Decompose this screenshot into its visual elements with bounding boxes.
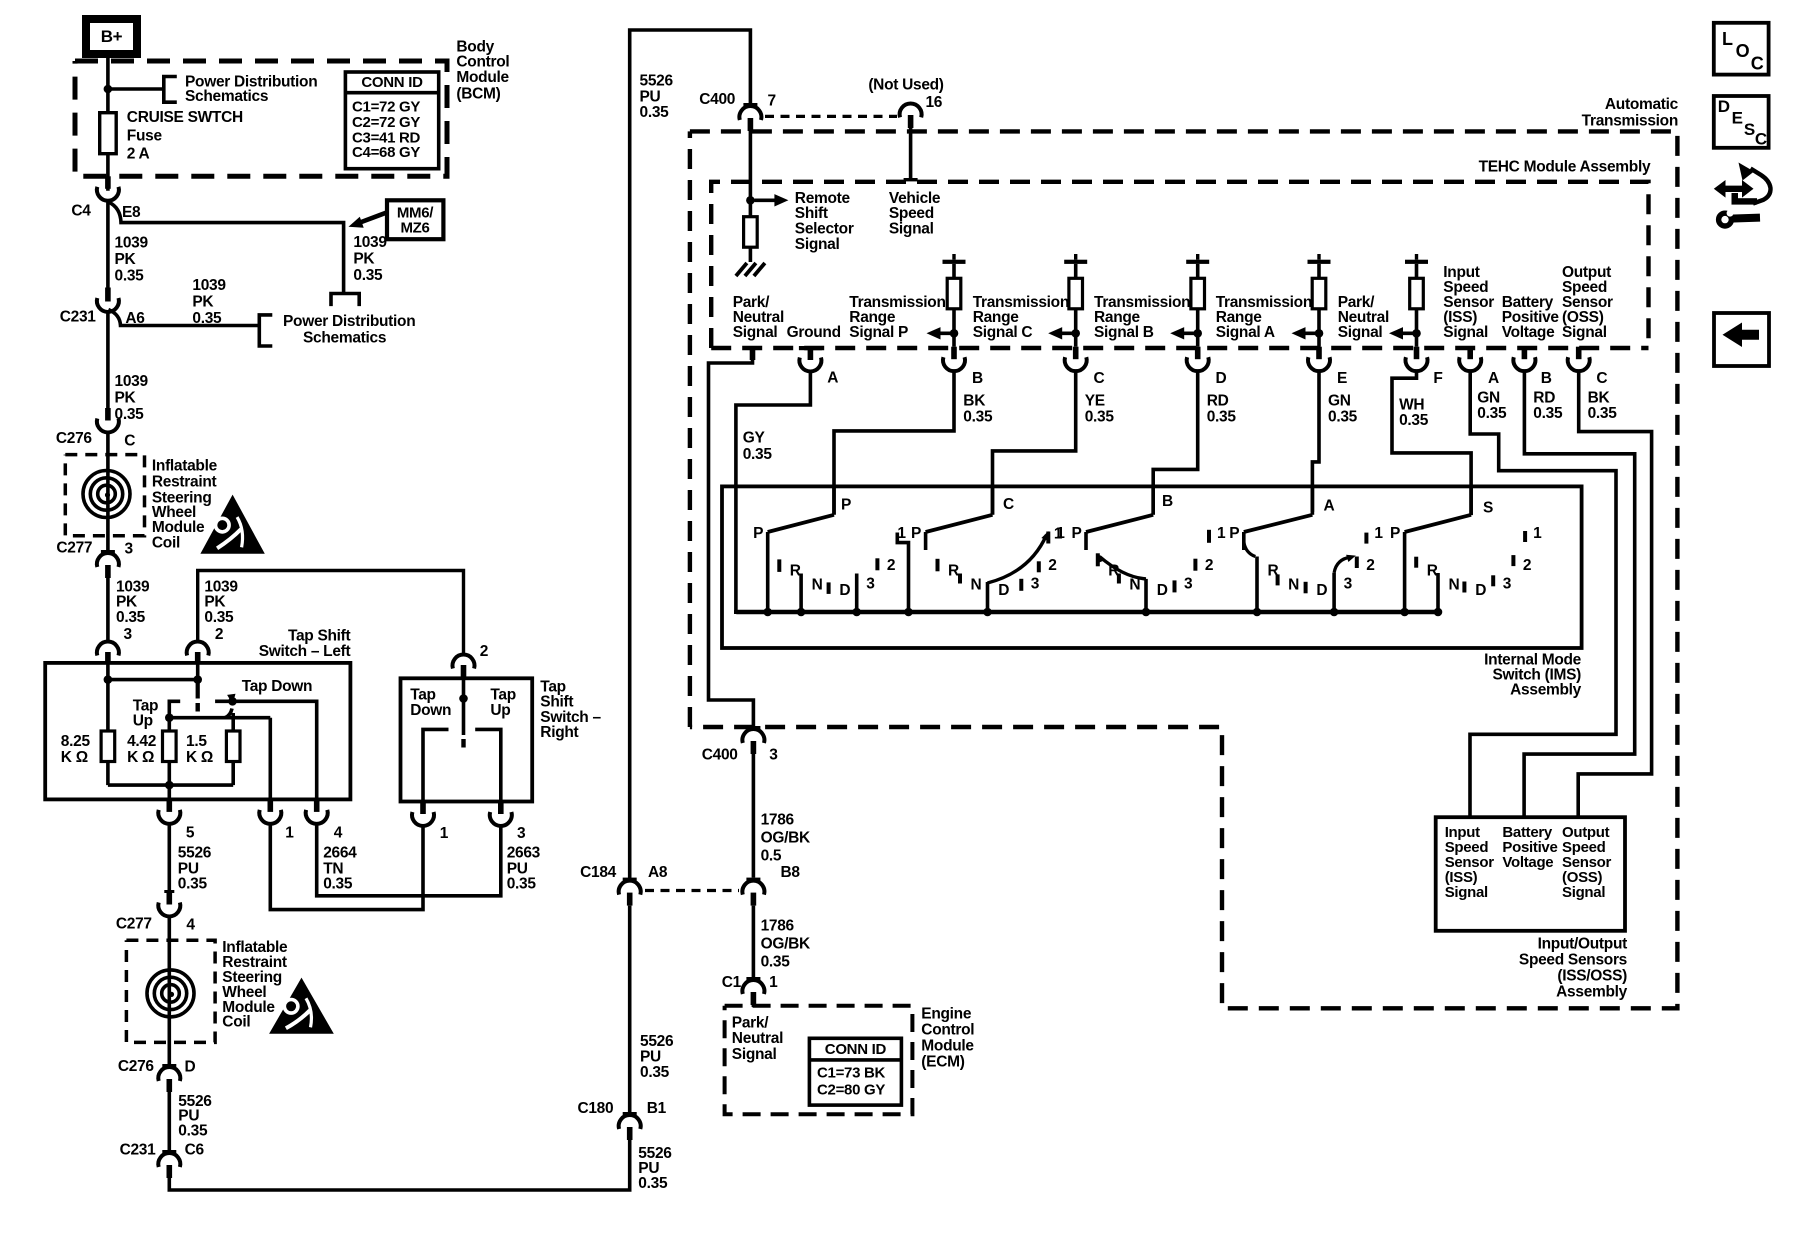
IMS bank A link P to R bbox=[1244, 542, 1256, 557]
svg-text:0.35: 0.35 bbox=[743, 446, 773, 463]
svg-text:C1=73 BK: C1=73 BK bbox=[817, 1065, 886, 1082]
svg-text:1786: 1786 bbox=[761, 812, 795, 829]
svg-text:C1: C1 bbox=[722, 974, 742, 991]
IMS bank C P contact bbox=[924, 532, 928, 550]
connector TEHC pin B at x=1524.4 bbox=[1522, 347, 1528, 360]
IMS bank A contact R bbox=[1255, 557, 1259, 613]
off-page reference Power Distribution Schematics 2 bbox=[259, 315, 272, 346]
svg-text:E: E bbox=[1732, 109, 1743, 128]
IMS bank C contact 1 bbox=[1046, 532, 1050, 544]
svg-text:0.35: 0.35 bbox=[963, 409, 993, 426]
wire pin1-left to pin1-right bbox=[270, 824, 423, 909]
IMS bank P contact 2 bbox=[875, 558, 879, 570]
node jumper right bbox=[193, 675, 202, 684]
connector table CONN ID ECM bbox=[809, 1038, 901, 1105]
connector C231 pin A6 bbox=[105, 288, 111, 302]
dashed box inflatable restraint coil upper bbox=[65, 455, 144, 536]
battery feed B+ terminal bbox=[86, 19, 137, 54]
internal mode switch IMS box bbox=[722, 486, 1582, 648]
wire C277 to switch pin 3 bbox=[106, 578, 110, 643]
svg-text:N: N bbox=[812, 577, 823, 594]
svg-text:1: 1 bbox=[1054, 525, 1063, 542]
wire 5526 riser to C400 pin 7 bbox=[630, 30, 751, 878]
resistor remote shift selector bbox=[744, 217, 758, 248]
wire B8 to C1 bbox=[752, 906, 756, 977]
svg-text:5526: 5526 bbox=[640, 73, 674, 90]
MM6/MZ6 option box bbox=[387, 200, 443, 239]
svg-text:Signal: Signal bbox=[733, 324, 778, 341]
svg-text:Signal: Signal bbox=[1562, 884, 1605, 901]
svg-text:PK: PK bbox=[192, 294, 214, 311]
connector C276 pin D bbox=[162, 1064, 176, 1067]
wire branch E8 to MM6/MZ6 note bbox=[108, 202, 343, 294]
svg-text:RD: RD bbox=[1207, 393, 1229, 410]
svg-text:0.35: 0.35 bbox=[640, 104, 670, 121]
svg-text:Signal P: Signal P bbox=[849, 324, 908, 341]
connector TEHC pin D at x=1197.7 bbox=[1195, 347, 1201, 360]
svg-text:0.35: 0.35 bbox=[640, 1064, 670, 1081]
svg-text:Signal: Signal bbox=[1443, 324, 1488, 341]
svg-text:Signal: Signal bbox=[795, 236, 840, 253]
node resistor bus bbox=[165, 781, 174, 790]
input/output speed sensors box bbox=[1436, 817, 1625, 931]
svg-text:Voltage: Voltage bbox=[1502, 854, 1553, 871]
arrow from MM6 box to wire bbox=[360, 212, 388, 223]
svg-text:D: D bbox=[1157, 582, 1168, 599]
svg-text:D: D bbox=[1475, 582, 1486, 599]
svg-text:Power Distribution: Power Distribution bbox=[283, 313, 415, 330]
wire pin to IMS feed x=1153.2 bbox=[1153, 372, 1198, 515]
connector C277 pin 4 bbox=[164, 890, 174, 893]
bus bottom of resistors bbox=[108, 783, 233, 787]
svg-text:0.35: 0.35 bbox=[178, 876, 208, 893]
svg-text:Input/Output: Input/Output bbox=[1538, 936, 1628, 953]
svg-text:CRUISE SWTCH: CRUISE SWTCH bbox=[127, 109, 243, 126]
svg-text:Schematics: Schematics bbox=[185, 88, 268, 105]
tap shift switch right box bbox=[401, 678, 533, 801]
svg-text:B: B bbox=[972, 370, 983, 387]
svg-text:Voltage: Voltage bbox=[1502, 324, 1555, 341]
wire internal jumper pin3-pin2 bbox=[106, 663, 110, 680]
IMS bank S contact 1 bbox=[1523, 531, 1527, 542]
IMS bank P P contact bbox=[766, 532, 770, 612]
connector TEHC pin A ground bbox=[799, 346, 822, 350]
pull-up column B (Signal P) bbox=[943, 260, 966, 264]
connector switch-right pin 1 bbox=[420, 802, 426, 815]
svg-text:C4=68 GY: C4=68 GY bbox=[352, 144, 420, 161]
connector TEHC pin E at x=1319.0 bbox=[1316, 347, 1322, 360]
wire A6 branch to power distribution bbox=[108, 310, 259, 326]
svg-text:N: N bbox=[971, 577, 982, 594]
svg-text:S: S bbox=[1483, 500, 1493, 517]
svg-text:PK: PK bbox=[115, 390, 137, 407]
wire B+ to fuse bbox=[106, 54, 110, 191]
off-page reference bracket down bbox=[331, 294, 359, 307]
switch blade tap down with arrow bbox=[225, 709, 232, 718]
IMS common bus bbox=[736, 610, 1438, 615]
svg-text:D: D bbox=[185, 1059, 196, 1076]
connector C400 pin 7 bbox=[743, 103, 757, 106]
svg-text:0.35: 0.35 bbox=[1328, 409, 1358, 426]
svg-text:Up: Up bbox=[133, 713, 153, 730]
IMS bank A contact 2 bbox=[1355, 557, 1359, 569]
svg-text:(Not Used): (Not Used) bbox=[868, 77, 943, 94]
svg-text:Restraint: Restraint bbox=[152, 474, 217, 491]
svg-text:5: 5 bbox=[186, 825, 195, 842]
svg-text:A: A bbox=[1488, 370, 1499, 387]
svg-text:2664: 2664 bbox=[323, 844, 357, 861]
svg-text:2663: 2663 bbox=[507, 844, 541, 861]
switch pole right box bbox=[462, 678, 466, 735]
svg-text:1039: 1039 bbox=[115, 373, 149, 390]
svg-text:Transmission: Transmission bbox=[1582, 112, 1678, 129]
svg-text:1: 1 bbox=[1374, 525, 1383, 542]
svg-text:2 A: 2 A bbox=[127, 146, 150, 163]
pin P/N stub (no connector) bbox=[750, 347, 756, 360]
svg-text:0.35: 0.35 bbox=[1085, 409, 1115, 426]
IMS bank S contact 2 bbox=[1511, 555, 1515, 566]
warning triangle SIR lower bbox=[269, 978, 334, 1034]
IMS bank C contact D bbox=[986, 582, 990, 612]
svg-text:1039: 1039 bbox=[192, 277, 226, 294]
IMS bank S contact N bbox=[1436, 573, 1440, 612]
IMS bank B contact N bbox=[1117, 574, 1121, 584]
svg-text:P: P bbox=[1390, 525, 1400, 542]
svg-text:1: 1 bbox=[440, 825, 449, 842]
svg-text:B+: B+ bbox=[101, 27, 123, 46]
arrow remote shift selector signal bbox=[754, 199, 779, 203]
svg-text:1039: 1039 bbox=[115, 235, 149, 252]
wire 8.25K leg bbox=[106, 680, 110, 731]
connector C4 pin E8 bbox=[105, 176, 111, 189]
svg-text:Automatic: Automatic bbox=[1605, 96, 1679, 113]
IMS bank B contact 3 bbox=[1173, 580, 1177, 592]
wire ground GY to IMS bus bbox=[736, 372, 811, 612]
svg-text:PU: PU bbox=[640, 1049, 661, 1066]
svg-text:BK: BK bbox=[963, 393, 986, 410]
svg-text:C276: C276 bbox=[118, 1058, 155, 1075]
wire pin to IMS feed x=992.5 bbox=[993, 372, 1076, 515]
svg-text:PK: PK bbox=[353, 251, 375, 268]
svg-text:0.35: 0.35 bbox=[1533, 405, 1563, 422]
wire pin E to IMS feed A bbox=[1312, 372, 1319, 512]
svg-text:(ECM): (ECM) bbox=[921, 1054, 964, 1071]
svg-text:D: D bbox=[1316, 582, 1327, 599]
connector C231 pin C6 bbox=[162, 1150, 176, 1153]
IMS bank S P contact bbox=[1403, 532, 1407, 612]
wire Park/Neutral signal to C400-3 bbox=[709, 360, 754, 726]
svg-text:CONN ID: CONN ID bbox=[825, 1041, 887, 1058]
svg-text:Signal A: Signal A bbox=[1216, 324, 1275, 341]
switch pole from pin 2 bbox=[196, 680, 200, 699]
svg-text:C184: C184 bbox=[580, 864, 617, 881]
svg-text:16: 16 bbox=[925, 94, 942, 111]
svg-text:2: 2 bbox=[480, 643, 488, 660]
svg-text:P: P bbox=[911, 525, 921, 542]
svg-text:A8: A8 bbox=[648, 864, 668, 881]
svg-text:0.35: 0.35 bbox=[115, 267, 145, 284]
IMS bank P contact D bbox=[827, 582, 831, 594]
svg-text:B8: B8 bbox=[781, 864, 801, 881]
svg-text:C277: C277 bbox=[116, 916, 152, 933]
svg-text:C: C bbox=[1751, 53, 1764, 73]
svg-text:Module: Module bbox=[152, 519, 205, 536]
svg-text:CONN ID: CONN ID bbox=[361, 74, 423, 91]
svg-text:C231: C231 bbox=[60, 308, 97, 325]
node remote shift branch bbox=[746, 196, 755, 205]
IMS bank P feed wire bbox=[832, 486, 836, 514]
wire 1039 PK down from C4 bbox=[106, 201, 110, 287]
connector TEHC pin F at x=1416.5 bbox=[1414, 347, 1420, 360]
icon box DESC bbox=[1714, 96, 1769, 148]
pull-up column D (Signal B) bbox=[1186, 260, 1209, 264]
svg-text:Signal: Signal bbox=[1445, 884, 1488, 901]
IMS bank C wiper arc to 1 bbox=[988, 535, 1047, 583]
connector TEHC pin C at x=1578.7 bbox=[1576, 347, 1582, 360]
connector switch-right pin 2 input bbox=[453, 655, 475, 669]
IMS bank B wiper arc R to D bbox=[1100, 557, 1147, 579]
svg-text:P: P bbox=[841, 497, 851, 514]
IMS bank C contact N bbox=[958, 574, 962, 584]
connector C184 pin B8 bbox=[746, 878, 760, 881]
IMS bank B contact D bbox=[1144, 579, 1148, 612]
resistor 8.25 K ohm bbox=[101, 731, 115, 762]
connector TEHC pin B at x=954.0 bbox=[951, 347, 957, 360]
svg-text:0.35: 0.35 bbox=[1588, 405, 1618, 422]
connector C276 pin C bbox=[105, 408, 111, 421]
IMS bank C contact 2 bbox=[1037, 561, 1041, 572]
connector switch-right pin 3 bbox=[498, 802, 504, 815]
svg-text:D: D bbox=[1216, 370, 1227, 387]
connector TEHC pin C at x=1075.7 bbox=[1073, 347, 1079, 360]
ground chassis bbox=[736, 263, 747, 276]
wire 4.42K leg bbox=[168, 718, 172, 731]
svg-text:Schematics: Schematics bbox=[303, 330, 386, 347]
icon wrench and arrows bbox=[1714, 180, 1754, 198]
connector switch-left pin 3 input bbox=[97, 642, 119, 656]
connector C400 pin 3 bbox=[746, 726, 760, 729]
IMS bank C contact 3 bbox=[1019, 579, 1023, 591]
svg-text:R: R bbox=[790, 563, 801, 580]
svg-text:C: C bbox=[124, 432, 135, 449]
svg-text:Module: Module bbox=[921, 1038, 974, 1055]
svg-text:0.5: 0.5 bbox=[761, 848, 782, 865]
svg-text:Speed Sensors: Speed Sensors bbox=[1519, 952, 1627, 969]
IMS bank P contact N bbox=[799, 574, 803, 613]
svg-text:C2=72 GY: C2=72 GY bbox=[352, 114, 420, 131]
svg-text:Signal: Signal bbox=[1338, 324, 1383, 341]
IMS bank S feed wire bbox=[1469, 486, 1473, 514]
connector switch-left pin 5 bbox=[167, 799, 173, 812]
svg-text:C2=80 GY: C2=80 GY bbox=[817, 1082, 885, 1099]
svg-text:D: D bbox=[1718, 97, 1730, 116]
svg-text:2: 2 bbox=[1205, 557, 1213, 574]
svg-text:1.5: 1.5 bbox=[186, 733, 207, 750]
svg-text:0.35: 0.35 bbox=[1207, 409, 1237, 426]
tap down fixed contact bar to pin 4 bbox=[215, 701, 317, 799]
IMS bank A contact 3 bbox=[1332, 573, 1336, 612]
ECM dashed box bbox=[725, 1006, 913, 1114]
connector switch-left pin 1 bbox=[268, 799, 274, 812]
IMS bank B contact 2 bbox=[1193, 559, 1197, 571]
wire Battery pin B to sensors box bbox=[1524, 372, 1635, 818]
off-page reference Power Distribution Schematics bbox=[164, 77, 177, 103]
tap up fixed contact bbox=[169, 701, 180, 717]
right box fixed contact tap up to pin 3 bbox=[475, 729, 501, 801]
svg-text:C276: C276 bbox=[56, 430, 93, 447]
svg-text:P: P bbox=[753, 525, 763, 542]
svg-text:4: 4 bbox=[186, 917, 195, 934]
svg-text:1039: 1039 bbox=[353, 234, 387, 251]
IMS bank S contact R bbox=[1414, 557, 1418, 568]
svg-text:Park/: Park/ bbox=[732, 1014, 769, 1031]
connector table CONN ID (BCM) bbox=[345, 72, 438, 169]
svg-text:C4: C4 bbox=[71, 202, 91, 219]
svg-text:Signal: Signal bbox=[889, 221, 934, 238]
svg-text:7: 7 bbox=[768, 92, 776, 109]
connector C184 pin A8 bbox=[623, 878, 637, 881]
svg-text:3: 3 bbox=[125, 541, 134, 558]
IMS bank A contact N bbox=[1276, 574, 1280, 585]
svg-text:0.35: 0.35 bbox=[323, 876, 353, 893]
svg-text:0.35: 0.35 bbox=[1399, 412, 1429, 429]
svg-text:N: N bbox=[1449, 577, 1460, 594]
wire C276D to C231C6 bbox=[168, 1092, 172, 1150]
svg-text:Neutral: Neutral bbox=[732, 1030, 783, 1047]
svg-text:(ISS/OSS): (ISS/OSS) bbox=[1557, 968, 1627, 985]
svg-text:A: A bbox=[1324, 498, 1335, 515]
svg-text:PK: PK bbox=[204, 594, 226, 611]
svg-text:Tap Shift: Tap Shift bbox=[288, 628, 351, 645]
svg-text:R: R bbox=[1427, 563, 1438, 580]
IMS bank A feed wire bbox=[1311, 486, 1315, 514]
connector ECM C1 pin 1 bbox=[746, 977, 760, 980]
svg-text:(BCM): (BCM) bbox=[456, 86, 500, 103]
svg-text:C: C bbox=[1596, 370, 1607, 387]
svg-text:C1=72 GY: C1=72 GY bbox=[352, 99, 420, 116]
svg-text:0.35: 0.35 bbox=[638, 1175, 668, 1192]
IMS bank P contact 3 bbox=[855, 574, 859, 613]
svg-text:1: 1 bbox=[1533, 525, 1542, 542]
svg-text:2: 2 bbox=[215, 626, 223, 643]
connector C277 pin 3 bbox=[101, 550, 115, 553]
dashed box TEHC Module Assembly bbox=[711, 182, 1648, 348]
svg-text:Signal B: Signal B bbox=[1094, 324, 1154, 341]
icon box back arrow bbox=[1714, 313, 1769, 366]
svg-text:Coil: Coil bbox=[222, 1014, 250, 1031]
connector switch-left pin 4 bbox=[314, 799, 320, 812]
svg-text:C400: C400 bbox=[699, 91, 735, 108]
svg-text:Down: Down bbox=[410, 702, 451, 719]
wire C231 to C276 bbox=[106, 313, 110, 409]
wire 1.5K leg bbox=[231, 713, 235, 731]
svg-text:TEHC Module Assembly: TEHC Module Assembly bbox=[1479, 159, 1651, 176]
svg-text:C180: C180 bbox=[577, 1100, 613, 1117]
wire pin5 to C277 pin4 bbox=[168, 824, 172, 890]
IMS bank C feed wire bbox=[991, 486, 995, 514]
IMS bank B P contact bbox=[1084, 532, 1088, 550]
pull-up column E (Signal A) bbox=[1308, 260, 1331, 264]
svg-text:1786: 1786 bbox=[761, 918, 795, 935]
svg-text:RD: RD bbox=[1533, 389, 1555, 406]
IMS bank A wiper arc 3 to 2 bbox=[1334, 557, 1351, 573]
pull-up column F (Signal) bbox=[1405, 260, 1428, 264]
svg-text:F: F bbox=[1433, 370, 1442, 387]
svg-text:3: 3 bbox=[769, 746, 778, 763]
icon box LOC bbox=[1714, 23, 1769, 75]
svg-text:Control: Control bbox=[456, 54, 509, 71]
svg-text:C231: C231 bbox=[120, 1142, 157, 1159]
svg-text:C: C bbox=[1003, 496, 1014, 513]
dashed link A8-B8 bbox=[645, 889, 739, 892]
svg-text:Assembly: Assembly bbox=[1556, 984, 1628, 1001]
svg-text:2: 2 bbox=[1048, 557, 1056, 574]
IMS bank B contact 1 bbox=[1207, 530, 1211, 543]
svg-text:0.35: 0.35 bbox=[1477, 405, 1507, 422]
dashed link C400 7-16 bbox=[765, 115, 897, 118]
IMS bank A contact D bbox=[1304, 582, 1308, 594]
wire pin4-left to pin3-right bbox=[317, 824, 501, 895]
svg-text:Signal C: Signal C bbox=[973, 324, 1033, 341]
svg-text:Signal: Signal bbox=[1562, 324, 1607, 341]
svg-text:Ground: Ground bbox=[787, 324, 841, 341]
right box fixed contact tap down to pin 1 bbox=[423, 729, 449, 801]
svg-text:0.35: 0.35 bbox=[178, 1122, 208, 1139]
svg-text:PK: PK bbox=[115, 251, 137, 268]
wire through coil bbox=[106, 433, 110, 550]
svg-text:Coil: Coil bbox=[152, 535, 180, 552]
svg-text:Up: Up bbox=[490, 702, 510, 719]
svg-text:B1: B1 bbox=[647, 1100, 667, 1117]
svg-text:P: P bbox=[1071, 525, 1081, 542]
warning triangle SIR upper bbox=[200, 495, 264, 554]
svg-text:C400: C400 bbox=[702, 746, 738, 763]
wire vehicle speed stub bbox=[909, 128, 913, 178]
wire to ground bbox=[749, 247, 753, 262]
svg-text:PK: PK bbox=[116, 594, 138, 611]
node right pole bbox=[459, 694, 468, 703]
svg-text:C: C bbox=[1094, 370, 1105, 387]
svg-text:Module: Module bbox=[456, 69, 509, 86]
svg-text:B: B bbox=[1541, 370, 1552, 387]
IMS bank C contact R bbox=[936, 559, 940, 572]
svg-text:OG/BK: OG/BK bbox=[761, 936, 811, 953]
svg-text:0.35: 0.35 bbox=[204, 609, 234, 626]
wire to power distribution reference bbox=[108, 87, 164, 91]
connector TEHC pin A at x=1470.2 bbox=[1467, 347, 1473, 360]
IMS bank B feed wire bbox=[1151, 486, 1155, 514]
IMS bank A P contact bbox=[1242, 532, 1246, 550]
svg-text:E: E bbox=[1337, 370, 1347, 387]
svg-text:0.35: 0.35 bbox=[761, 954, 791, 971]
svg-text:3: 3 bbox=[1031, 576, 1040, 593]
wire bus to pin 5 bbox=[168, 785, 172, 799]
svg-text:Switch – Left: Switch – Left bbox=[259, 643, 351, 660]
node junction to Power Distribution bbox=[104, 85, 113, 94]
svg-text:OG/BK: OG/BK bbox=[761, 830, 811, 847]
svg-text:3: 3 bbox=[517, 825, 526, 842]
pull-up column C (Signal C) bbox=[1064, 260, 1087, 264]
svg-text:2: 2 bbox=[1523, 557, 1531, 574]
wire pin2 feed loop to right switch bbox=[198, 571, 464, 656]
IMS bank S contact 3 bbox=[1491, 575, 1495, 586]
wire through lower coil bbox=[168, 917, 172, 1064]
IMS bank A contact 1 bbox=[1364, 533, 1368, 544]
wire C400-7 into TEHC bbox=[749, 131, 753, 217]
IMS bank B contact R bbox=[1096, 553, 1100, 566]
svg-text:5526: 5526 bbox=[178, 844, 212, 861]
svg-text:P: P bbox=[1229, 525, 1239, 542]
